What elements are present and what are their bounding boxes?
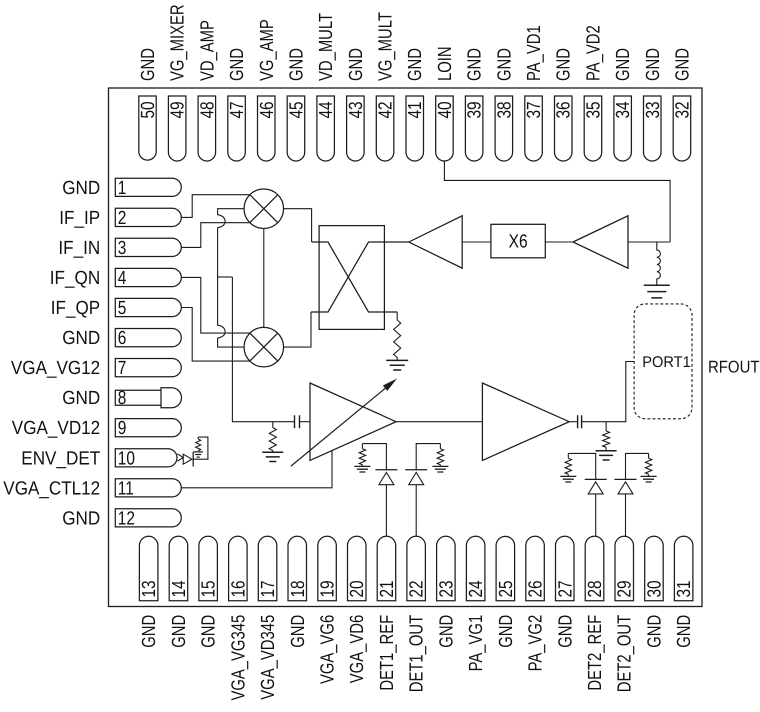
svg-text:VG_MIXER: VG_MIXER [168, 4, 189, 81]
pin 27 [555, 536, 576, 600]
pin 49 [168, 96, 189, 161]
pin 4 [115, 268, 181, 289]
svg-text:GND: GND [613, 48, 634, 81]
capacitor C1 VGA input coupling [295, 415, 300, 428]
svg-text:1: 1 [118, 178, 127, 199]
pin 26 [526, 536, 547, 600]
pin 36 [554, 96, 575, 161]
svg-text:11: 11 [118, 478, 134, 499]
pin 10 [115, 448, 177, 469]
gain control arrow on U6 [291, 387, 387, 466]
pin 48 [197, 96, 218, 161]
svg-text:49: 49 [168, 101, 189, 118]
svg-text:6: 6 [118, 328, 127, 349]
hybrid X1 cross paths [311, 242, 409, 312]
pin 22 [407, 536, 428, 600]
wire U1 output to hybrid top-left port [284, 209, 312, 242]
pin 42 [376, 96, 397, 161]
resistor at x=648.6 for D4 [648, 453, 650, 458]
svg-text:GND: GND [674, 615, 695, 648]
svg-text:GND: GND [288, 615, 309, 648]
resistor at x=362.4 for D1 [361, 444, 363, 449]
svg-text:24: 24 [466, 580, 487, 597]
svg-text:GND: GND [554, 48, 575, 81]
svg-text:DET2_OUT: DET2_OUT [615, 615, 636, 693]
svg-text:GND: GND [62, 388, 100, 409]
svg-text:2: 2 [118, 208, 127, 229]
pin 16 [228, 536, 249, 600]
wire LOIN pin40 routing [444, 161, 670, 242]
pin 2 [115, 208, 181, 229]
ground for D2 [432, 466, 448, 472]
svg-text:22: 22 [407, 580, 428, 597]
svg-text:VG_MULT: VG_MULT [376, 12, 397, 81]
pin 40 [435, 96, 456, 161]
pin 1 [115, 178, 181, 199]
diode D2 with wire to DET1_OUT pin22 [405, 444, 440, 537]
wire U3 to X6 [462, 241, 491, 243]
wire node between mixers down to VGA input [232, 277, 294, 422]
svg-text:29: 29 [615, 580, 636, 597]
pin 13 [139, 536, 160, 600]
svg-text:21: 21 [377, 580, 398, 597]
svg-text:50: 50 [138, 101, 159, 118]
wire IF_QN pin4 to U2 upper-left [181, 277, 250, 333]
resistor at x=568.3 for D3 [567, 453, 569, 458]
svg-text:IF_IN: IF_IN [58, 238, 100, 259]
svg-text:VD_AMP: VD_AMP [197, 20, 218, 81]
svg-text:GND: GND [62, 508, 100, 529]
svg-text:27: 27 [555, 580, 576, 597]
svg-text:GND: GND [672, 48, 693, 81]
pin 17 [258, 536, 279, 600]
resistor R8 envelope detector load [197, 437, 199, 439]
pin 19 [318, 536, 339, 600]
wire VGA_CTL12 pin11 to U6 [181, 451, 332, 488]
svg-text:VGA_VG6: VGA_VG6 [318, 615, 339, 684]
wire U6 output to U7 input [396, 421, 482, 423]
svg-text:IF_QN: IF_QN [50, 268, 100, 289]
svg-text:18: 18 [288, 580, 309, 597]
svg-text:GND: GND [62, 178, 100, 199]
svg-text:14: 14 [169, 580, 190, 597]
svg-text:25: 25 [496, 580, 517, 597]
pin 28 [585, 536, 606, 600]
svg-text:48: 48 [197, 101, 218, 118]
svg-text:VGA_VG345: VGA_VG345 [228, 615, 249, 701]
svg-text:VGA_CTL12: VGA_CTL12 [3, 478, 100, 499]
svg-text:GND: GND [496, 615, 517, 648]
svg-text:26: 26 [526, 580, 547, 597]
resistor R3 hybrid termination [396, 312, 398, 320]
svg-text:38: 38 [494, 101, 515, 118]
wire U4 input from LOIN node [628, 241, 670, 243]
pin 24 [466, 536, 487, 600]
svg-text:30: 30 [644, 580, 665, 597]
svg-text:DET2_REF: DET2_REF [585, 615, 606, 691]
svg-text:3: 3 [118, 238, 127, 259]
svg-text:46: 46 [257, 101, 278, 118]
pin 20 [347, 536, 368, 600]
svg-text:GND: GND [138, 48, 159, 81]
svg-text:VGA_VD12: VGA_VD12 [12, 418, 100, 439]
svg-text:41: 41 [405, 101, 426, 118]
svg-text:43: 43 [346, 101, 367, 118]
svg-text:GND: GND [644, 615, 665, 648]
pin 18 [288, 536, 309, 600]
ground at R1 [262, 452, 283, 461]
svg-text:PA_VD1: PA_VD1 [524, 25, 545, 81]
svg-text:GND: GND [555, 615, 576, 648]
svg-text:IF_QP: IF_QP [51, 298, 100, 319]
svg-text:VGA_VD6: VGA_VD6 [347, 615, 368, 683]
pin 9 [115, 418, 181, 439]
wire LO bus joining U1 and U2 left ports (with hops) [218, 209, 245, 347]
pin 35 [583, 96, 604, 161]
pin 38 [494, 96, 515, 161]
svg-text:10: 10 [118, 448, 135, 469]
svg-text:GND: GND [139, 615, 160, 648]
port PORT1 [634, 304, 692, 419]
svg-text:13: 13 [139, 580, 160, 597]
wire U2 output to hybrid bottom-left port [284, 312, 311, 347]
ground at R8 [193, 452, 203, 457]
svg-text:40: 40 [435, 101, 456, 118]
frequency multiplier X6 block [491, 224, 545, 257]
svg-text:ENV_DET: ENV_DET [21, 448, 100, 469]
diode D5 envelope detector [183, 454, 192, 464]
wire X6 to U4 [545, 241, 573, 243]
svg-text:PA_VD2: PA_VD2 [583, 25, 604, 81]
svg-text:44: 44 [316, 101, 337, 118]
svg-text:32: 32 [672, 101, 693, 118]
svg-text:16: 16 [228, 580, 249, 597]
svg-text:IF_IP: IF_IP [59, 208, 100, 229]
wire IF_IN pin3 to U1 lower-left [181, 223, 250, 248]
svg-text:23: 23 [436, 580, 457, 597]
svg-text:GND: GND [62, 328, 100, 349]
diode D3 with wire to DET2_REF pin28 [568, 453, 606, 536]
quadrature hybrid X1 box [319, 226, 384, 330]
svg-text:5: 5 [118, 298, 127, 319]
svg-text:GND: GND [346, 48, 367, 81]
svg-text:GND: GND [436, 615, 457, 648]
svg-text:GND: GND [465, 48, 486, 81]
svg-text:GND: GND [494, 48, 515, 81]
inductor L1 choke on LO node [657, 242, 661, 285]
pin 45 [286, 96, 307, 161]
pin 37 [524, 96, 545, 161]
diode D1 with wire to DET1_REF pin21 [362, 444, 397, 537]
svg-text:GND: GND [286, 48, 307, 81]
wire U1 bottom to U2 top [263, 228, 265, 327]
pin 23 [436, 536, 457, 600]
svg-text:DET1_REF: DET1_REF [377, 615, 398, 691]
pin 14 [169, 536, 190, 600]
ground at R3 [386, 360, 408, 370]
pin 31 [674, 536, 695, 600]
amplifier U3 [409, 216, 462, 268]
svg-text:42: 42 [376, 101, 397, 118]
svg-text:DET1_OUT: DET1_OUT [407, 615, 428, 693]
svg-text:8: 8 [118, 388, 127, 409]
pin 15 [199, 536, 220, 600]
chip body outline [109, 88, 703, 607]
pin 29 [615, 536, 636, 600]
pin 30 [644, 536, 665, 600]
svg-text:VD_MULT: VD_MULT [316, 13, 337, 81]
wire U7 to C2 [569, 421, 577, 423]
svg-text:19: 19 [318, 580, 339, 597]
pin 43 [346, 96, 367, 161]
wire junction bus to VGA feed [218, 276, 233, 278]
pin 8 [115, 388, 181, 409]
mixer U2 (Q) [244, 327, 284, 367]
svg-text:28: 28 [585, 580, 606, 597]
svg-text:47: 47 [227, 101, 248, 118]
svg-text:PORT1: PORT1 [642, 354, 691, 371]
svg-text:LOIN: LOIN [435, 46, 456, 81]
mixer U1 (I) [244, 189, 284, 229]
svg-text:PA_VG1: PA_VG1 [466, 615, 487, 672]
svg-text:20: 20 [347, 580, 368, 597]
ground at R2 [596, 451, 617, 460]
svg-text:GND: GND [227, 48, 248, 81]
svg-text:GND: GND [169, 615, 190, 648]
wire IF_IP pin2 to U1 upper-left [181, 195, 250, 218]
svg-text:34: 34 [613, 101, 634, 118]
pin 6 [115, 328, 181, 349]
ground for D4 [641, 476, 657, 482]
svg-text:VGA_VD345: VGA_VD345 [258, 615, 279, 700]
resistor R1 shunt at VGA input [272, 422, 274, 428]
pin 11 [115, 478, 181, 499]
amplifier U4 [573, 216, 628, 268]
svg-text:45: 45 [286, 101, 307, 118]
svg-text:33: 33 [643, 101, 664, 118]
pin 25 [496, 536, 517, 600]
pin 39 [465, 96, 486, 161]
svg-text:7: 7 [118, 358, 127, 379]
pin 44 [316, 96, 337, 161]
op-amp U7 power amplifier [482, 383, 569, 460]
svg-text:PA_VG2: PA_VG2 [526, 615, 547, 672]
resistor R2 shunt at PA output [605, 422, 607, 431]
pin 46 [257, 96, 278, 161]
svg-text:15: 15 [199, 580, 220, 597]
pin 34 [613, 96, 634, 161]
svg-text:39: 39 [465, 101, 486, 118]
svg-text:9: 9 [118, 418, 127, 439]
pin 7 [115, 358, 181, 379]
svg-text:12: 12 [118, 508, 135, 529]
pin 33 [643, 96, 664, 161]
svg-text:35: 35 [583, 101, 604, 118]
capacitor C2 output coupling [578, 415, 582, 428]
svg-text:VG_AMP: VG_AMP [257, 19, 278, 81]
svg-text:17: 17 [258, 580, 279, 597]
pin 3 [115, 238, 181, 259]
pin 21 [377, 536, 398, 600]
wire D5 cathode loop to R8 [193, 437, 208, 459]
op-amp U6 variable gain amplifier [310, 383, 396, 460]
svg-text:VGA_VG12: VGA_VG12 [11, 358, 100, 379]
ground for D1 [354, 466, 370, 472]
pin 47 [227, 96, 248, 161]
svg-text:RFOUT: RFOUT [708, 358, 760, 377]
pin10 arrow tip [178, 454, 184, 461]
svg-text:37: 37 [524, 101, 545, 118]
ground at L1 [644, 285, 670, 298]
wire IF_QP pin5 to U2 lower-left [181, 308, 250, 362]
ground for D3 [560, 476, 576, 482]
svg-text:36: 36 [554, 101, 575, 118]
svg-text:4: 4 [118, 268, 127, 289]
pin 41 [405, 96, 426, 161]
pin 50 [138, 96, 159, 160]
svg-text:GND: GND [199, 615, 220, 648]
resistor at x=440.4 for D2 [439, 444, 441, 449]
wire C1 to VGA input [300, 421, 311, 423]
svg-text:GND: GND [405, 48, 426, 81]
pin 5 [115, 298, 181, 319]
svg-text:31: 31 [674, 580, 695, 597]
wire C2 to PORT1 [582, 362, 635, 422]
svg-text:GND: GND [643, 48, 664, 81]
diode D4 with wire to DET2_OUT pin29 [615, 453, 649, 536]
pin 12 [115, 508, 181, 529]
svg-text:X6: X6 [509, 231, 528, 252]
pin 32 [672, 96, 693, 161]
